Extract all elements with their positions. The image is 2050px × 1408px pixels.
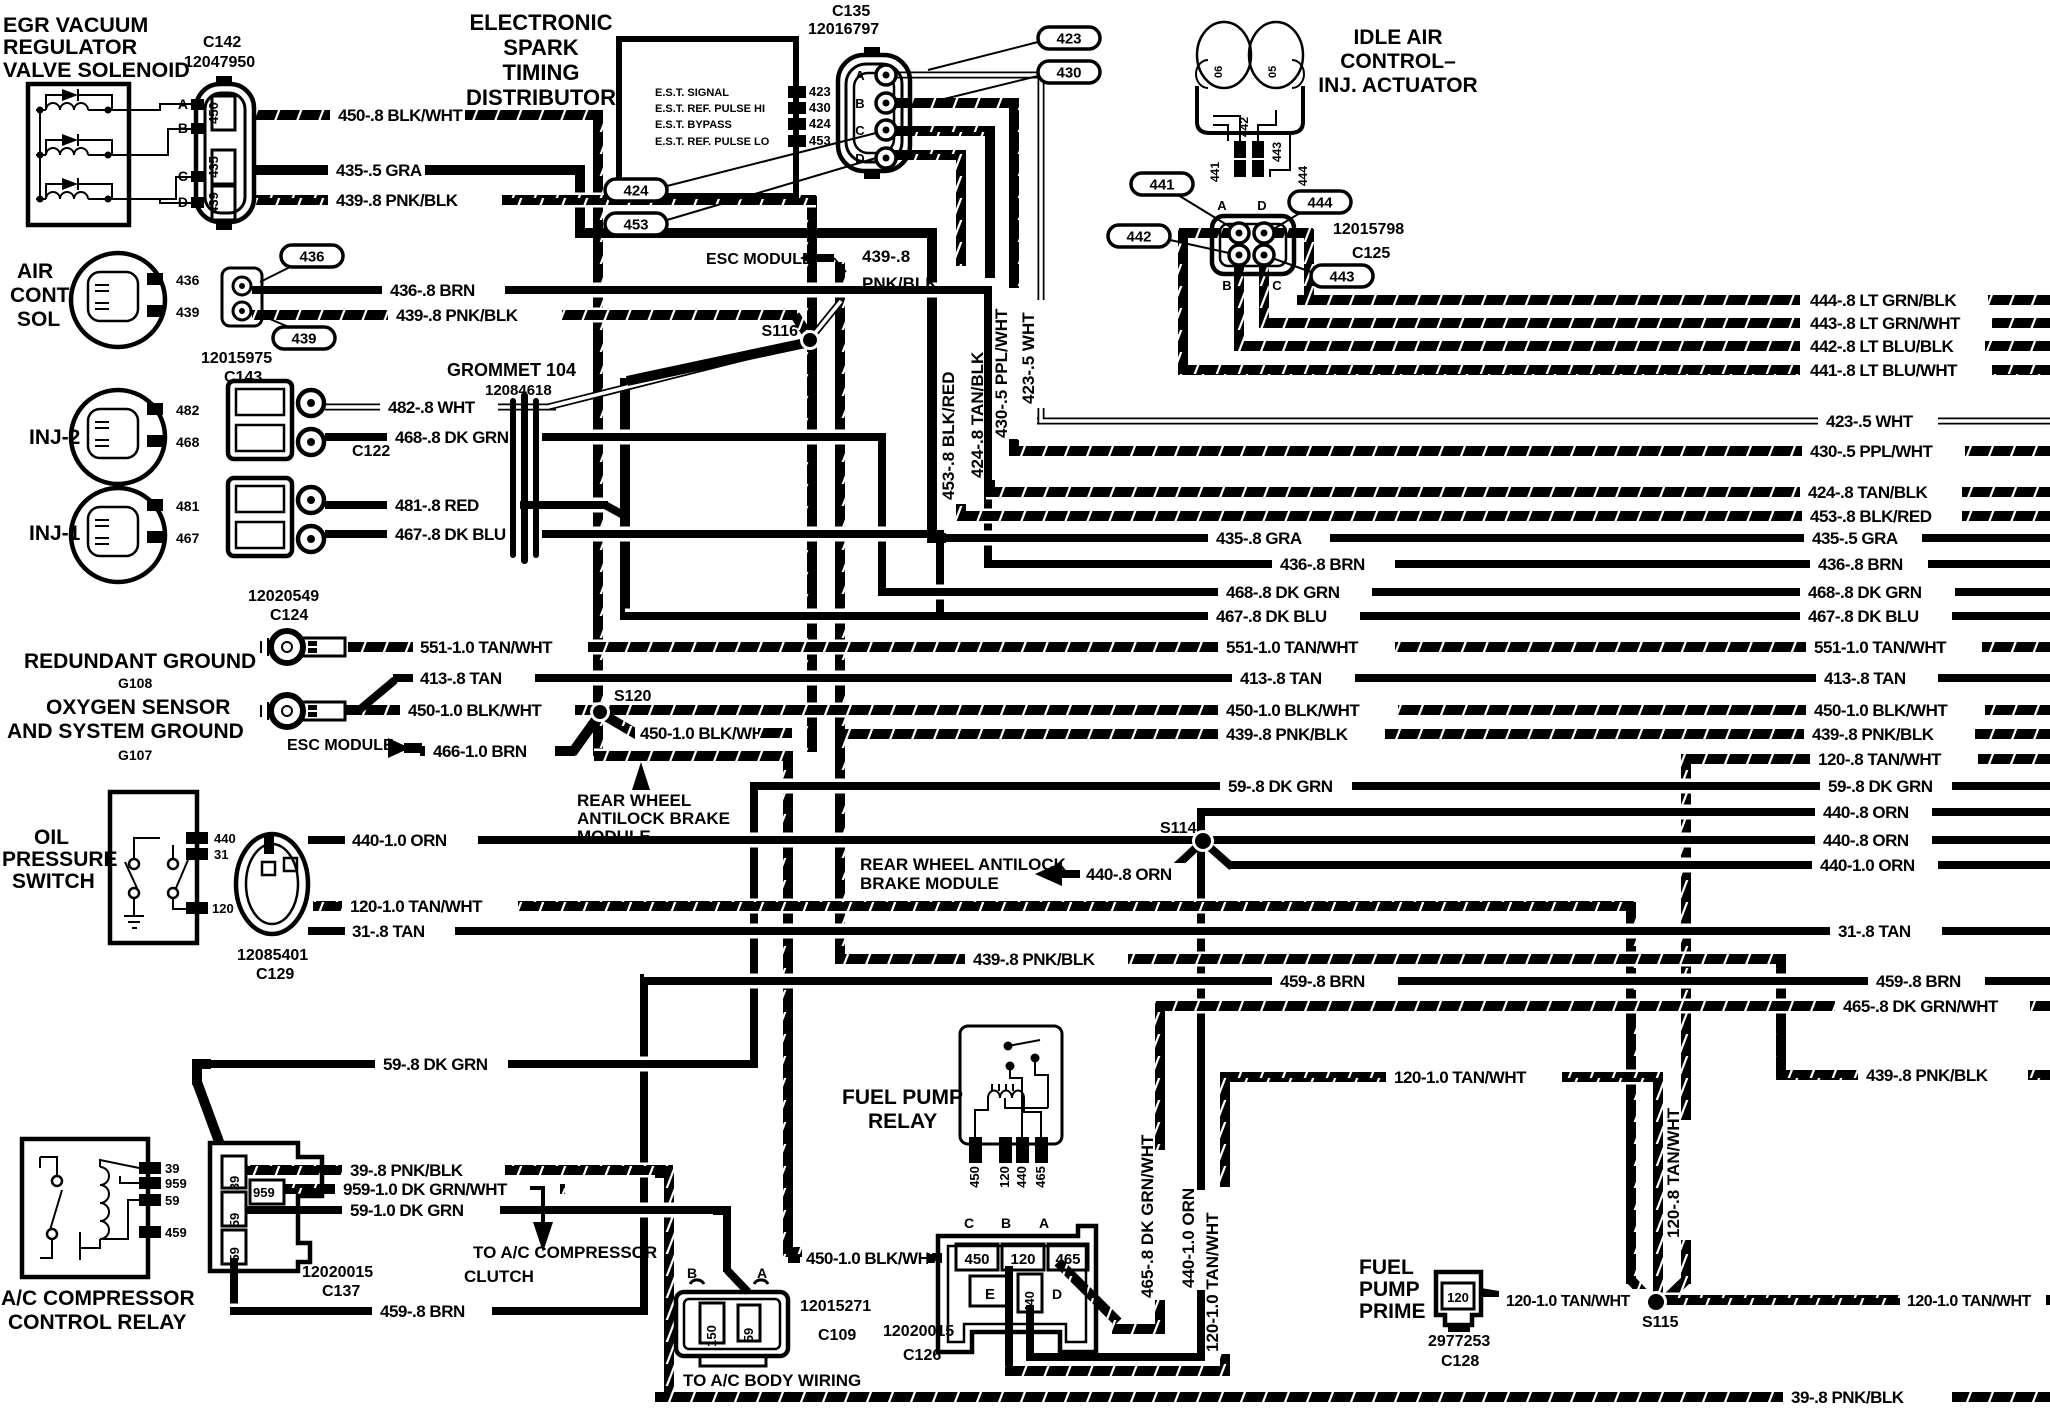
svg-text:443: 443 <box>1270 142 1284 162</box>
svg-text:E.S.T. SIGNAL: E.S.T. SIGNAL <box>655 87 729 99</box>
stadium 430 <box>1038 61 1100 83</box>
wire 450-1.0 BLK/WHT row <box>345 703 400 718</box>
svg-text:436: 436 <box>299 249 324 266</box>
connector C129 <box>236 834 308 934</box>
svg-text:C124: C124 <box>270 607 308 624</box>
corner 440 x=1201 <box>1187 1343 1201 1357</box>
svg-text:C122: C122 <box>352 443 390 460</box>
wire 59-.8 DK GRN row lower <box>197 1057 375 1072</box>
fuel pump prime connector <box>1436 1272 1481 1325</box>
wire 466-1.0 BRN to ESC module <box>420 744 425 759</box>
injector INJ-2 circle <box>71 390 165 484</box>
A/C relay coil symbol <box>100 1167 109 1239</box>
corner C125 wire feeds <box>1297 288 1309 300</box>
connector C142 pins <box>191 99 204 110</box>
wire 465 diagonal from C126 <box>1058 1262 1118 1322</box>
svg-text:A: A <box>1217 198 1227 213</box>
svg-text:FUEL PUMP: FUEL PUMP <box>842 1086 963 1109</box>
wire 466-1.0 BRN diagonal to S120 <box>572 714 600 753</box>
wire 39-.8 PNK/BLK row from C137 <box>246 1163 342 1178</box>
splice S116 <box>800 330 820 350</box>
svg-text:442: 442 <box>1237 117 1251 137</box>
wire 59 lower vertical x=197 <box>192 1060 202 1085</box>
svg-text:12015798: 12015798 <box>1333 221 1404 238</box>
svg-text:REGULATOR: REGULATOR <box>3 35 138 59</box>
svg-text:467-.8 DK BLU: 467-.8 DK BLU <box>1808 607 1919 626</box>
svg-text:450-.8 BLK/WHT: 450-.8 BLK/WHT <box>338 106 463 125</box>
svg-text:482: 482 <box>176 402 200 418</box>
svg-text:430: 430 <box>809 100 831 115</box>
svg-text:VALVE SOLENOID: VALVE SOLENOID <box>3 58 190 82</box>
svg-text:120-.8 TAN/WHT: 120-.8 TAN/WHT <box>1818 750 1942 769</box>
injector INJ-2 pins <box>147 403 163 415</box>
wire 439 diagonal into S116 <box>795 315 809 337</box>
svg-text:435-.5 GRA: 435-.5 GRA <box>1812 529 1898 548</box>
wire 424-.8 TAN/BLK row <box>986 485 1800 500</box>
svg-text:424-.8 TAN/BLK: 424-.8 TAN/BLK <box>1808 483 1928 502</box>
svg-text:120-1.0 TAN/WHT: 120-1.0 TAN/WHT <box>1907 1293 2032 1310</box>
svg-text:120-1.0 TAN/WHT: 120-1.0 TAN/WHT <box>1394 1068 1527 1087</box>
wire S115 funnel diagonals <box>1631 1280 1652 1302</box>
wire 120-1.0 TAN/WHT vertical x=1658 <box>1653 1073 1663 1300</box>
svg-text:439-.8 PNK/BLK: 439-.8 PNK/BLK <box>1226 725 1349 744</box>
svg-text:465: 465 <box>1055 1251 1080 1268</box>
svg-text:B: B <box>178 120 188 136</box>
svg-text:424: 424 <box>809 116 831 131</box>
svg-text:G107: G107 <box>118 747 152 763</box>
svg-text:C: C <box>1272 278 1282 293</box>
corner C135 wire feeds <box>1041 409 1053 421</box>
fuel pump relay coil <box>988 1091 1024 1098</box>
wire 959-1.0 DK GRN/WHT row <box>284 1182 335 1197</box>
wire 467-.8 DK BLU vertical x=940 <box>936 530 944 620</box>
wire 59-1.0 DK GRN row <box>246 1203 342 1218</box>
wire 468-.8 DK GRN vertical x=882 <box>878 433 886 596</box>
wires EGR box to C142 pins <box>124 104 191 110</box>
svg-text:FUEL: FUEL <box>1359 1256 1414 1279</box>
svg-text:IDLE AIR: IDLE AIR <box>1353 26 1442 49</box>
svg-text:959: 959 <box>165 1176 187 1191</box>
svg-text:459-.8 BRN: 459-.8 BRN <box>380 1302 465 1321</box>
wire S114 diagonal to 440-1.0 row <box>1206 844 1232 867</box>
svg-text:TIMING: TIMING <box>503 60 580 85</box>
svg-text:C: C <box>964 1215 974 1231</box>
corner 439 x=812 join row 734 <box>807 726 817 738</box>
svg-text:439-.8 PNK/BLK: 439-.8 PNK/BLK <box>1812 725 1935 744</box>
svg-text:120: 120 <box>1010 1251 1035 1268</box>
svg-text:12047950: 12047950 <box>184 54 255 71</box>
wire 120-.8 TAN/WHT vertical x=1686 <box>1681 755 1691 1120</box>
svg-text:959-1.0 DK GRN/WHT: 959-1.0 DK GRN/WHT <box>343 1180 508 1199</box>
wire 439-.8 PNK/BLK vertical x=1781 <box>1776 954 1786 1079</box>
wire 441 lead from pin A y=233 <box>1183 228 1243 238</box>
svg-text:481: 481 <box>176 498 200 514</box>
svg-text:REAR WHEEL ANTILOCK: REAR WHEEL ANTILOCK <box>860 855 1067 874</box>
wire 439-.8 PNK/BLK from C142 <box>252 193 328 208</box>
wire 59-.8 DK GRN row upper <box>754 779 1220 794</box>
connector C125 body <box>1212 216 1294 274</box>
connector C125 pins <box>1229 223 1249 243</box>
svg-text:436: 436 <box>176 272 200 288</box>
corner 465 x=1160 <box>1160 1006 1174 1020</box>
svg-text:444-.8 LT GRN/BLK: 444-.8 LT GRN/BLK <box>1810 291 1957 310</box>
svg-text:39-.8 PNK/BLK: 39-.8 PNK/BLK <box>350 1161 464 1180</box>
corner 468 wire <box>868 437 882 451</box>
stadium 443 <box>1311 265 1373 287</box>
wire 436-.8 BRN from C143 <box>252 283 382 298</box>
svg-text:C135: C135 <box>832 3 870 20</box>
svg-text:453-.8 BLK/RED: 453-.8 BLK/RED <box>1810 507 1932 526</box>
svg-text:440: 440 <box>1022 1291 1037 1313</box>
svg-text:C137: C137 <box>322 1283 360 1300</box>
wire 465 vertical x=1160 <box>1155 1002 1165 1150</box>
svg-text:468-.8 DK GRN: 468-.8 DK GRN <box>1226 583 1340 602</box>
wire 439-.8 PNK/BLK vertical x=812 from C142 <box>807 196 817 752</box>
svg-text:B: B <box>687 1265 697 1281</box>
svg-text:450: 450 <box>964 1251 989 1268</box>
svg-text:435-.5 GRA: 435-.5 GRA <box>336 161 422 180</box>
svg-text:A/C COMPRESSOR: A/C COMPRESSOR <box>1 1287 195 1310</box>
svg-text:423-.5 WHT: 423-.5 WHT <box>1019 312 1038 404</box>
svg-text:450-1.0 BLK/WHT: 450-1.0 BLK/WHT <box>1814 701 1948 720</box>
wire 440-1.0 ORN row from oil pressure switch / S114 <box>308 833 345 848</box>
wire C126 bottom horizontal y=1357 <box>1026 1353 1205 1361</box>
wire 439-.8 PNK/BLK stub row y=1075 <box>1777 1068 1858 1083</box>
corner 120-.8 x=1686 top <box>1686 759 1700 773</box>
idle air control motor pins <box>1234 141 1246 158</box>
distributor box <box>619 39 796 196</box>
svg-text:OXYGEN SENSOR: OXYGEN SENSOR <box>46 696 230 719</box>
idle air control motor symbol <box>1197 86 1303 133</box>
svg-text:REAR WHEEL: REAR WHEEL <box>577 791 691 810</box>
svg-text:31-.8 TAN: 31-.8 TAN <box>352 922 425 941</box>
wire 439-.8 PNK/BLK vertical x=840 from S116 <box>835 262 845 962</box>
svg-text:C125: C125 <box>1352 245 1390 262</box>
wire 120-1.0 TAN/WHT row y=1077 <box>1225 1070 1386 1085</box>
svg-text:441-.8 LT BLU/WHT: 441-.8 LT BLU/WHT <box>1810 361 1958 380</box>
A/C relay pins <box>139 1162 161 1174</box>
svg-text:440-.8 ORN: 440-.8 ORN <box>1823 831 1909 850</box>
wire 468-.8 DK GRN row <box>878 585 1218 600</box>
A/C relay switch symbol <box>52 1176 62 1186</box>
svg-text:SOL: SOL <box>17 308 60 331</box>
svg-text:39: 39 <box>227 1176 242 1190</box>
svg-text:S115: S115 <box>1642 1314 1679 1331</box>
svg-text:482-.8 WHT: 482-.8 WHT <box>388 398 476 417</box>
svg-text:EGR VACUUM: EGR VACUUM <box>3 13 148 37</box>
wire 59-1.0 DK GRN vertical x=727 <box>723 1207 731 1272</box>
svg-text:467-.8 DK BLU: 467-.8 DK BLU <box>395 525 506 544</box>
injector INJ-1 pins <box>147 499 163 511</box>
wire 120-.8 TAN/WHT row <box>1686 752 1810 767</box>
svg-text:S116: S116 <box>762 323 799 340</box>
EGR solenoid diode 1 <box>46 95 62 110</box>
EGR solenoid coil 1 <box>36 109 46 111</box>
corner 467 wire <box>926 534 940 548</box>
svg-text:SWITCH: SWITCH <box>12 870 95 893</box>
svg-text:440: 440 <box>214 831 236 846</box>
wire 435 route vertical x=932 <box>927 229 937 542</box>
svg-text:430-.5 PPL/WHT: 430-.5 PPL/WHT <box>992 308 1011 438</box>
svg-text:444: 444 <box>1307 195 1333 212</box>
svg-text:31: 31 <box>214 847 228 862</box>
wire 440 pin lead C126 x=1030 <box>1026 1305 1034 1361</box>
svg-text:465: 465 <box>1033 1166 1048 1188</box>
wire 439-.8 PNK/BLK from C143 <box>252 308 388 323</box>
wire 435-.5 GRA row <box>928 531 1208 546</box>
svg-text:443-.8 LT GRN/WHT: 443-.8 LT GRN/WHT <box>1810 314 1961 333</box>
wire 450-1.0 BLK/WHT into C126 <box>788 1251 800 1266</box>
wire 436-.8 BRN vertical x=988 <box>984 286 992 568</box>
svg-text:450-1.0 BLK/WHT: 450-1.0 BLK/WHT <box>640 724 774 743</box>
wire 467-.8 DK BLU from C124 <box>325 527 387 542</box>
svg-text:59: 59 <box>165 1193 179 1208</box>
arrow 440-.8 ORN to rear wheel module <box>1035 862 1062 886</box>
svg-text:413-.8 TAN: 413-.8 TAN <box>1240 669 1322 688</box>
wire 459-.8 BRN row <box>644 974 1272 989</box>
stadium 442 <box>1108 225 1170 247</box>
oil pressure switch pins <box>186 832 208 844</box>
wire S120 branch y=756 <box>594 749 792 764</box>
svg-text:BRAKE MODULE: BRAKE MODULE <box>860 874 999 893</box>
svg-text:39-.8 PNK/BLK: 39-.8 PNK/BLK <box>1791 1388 1905 1407</box>
svg-text:59-.8 DK GRN: 59-.8 DK GRN <box>383 1055 488 1074</box>
svg-text:466-1.0 BRN: 466-1.0 BRN <box>433 742 527 761</box>
svg-text:430: 430 <box>1056 65 1081 82</box>
svg-text:12020015: 12020015 <box>883 1323 954 1340</box>
svg-text:413-.8 TAN: 413-.8 TAN <box>1824 669 1906 688</box>
svg-text:436-.8 BRN: 436-.8 BRN <box>1818 555 1903 574</box>
svg-text:150: 150 <box>704 1325 719 1347</box>
wire 120-1.0 TAN/WHT row from oil pressure switch <box>313 899 342 914</box>
wire 435 route horizontal y=233 <box>576 228 936 238</box>
svg-text:442-.8 LT BLU/BLK: 442-.8 LT BLU/BLK <box>1810 337 1954 356</box>
connector C109 body <box>676 1292 788 1356</box>
svg-text:E: E <box>985 1286 995 1303</box>
corner 59 lower left <box>197 1064 211 1078</box>
svg-text:MODULE: MODULE <box>577 827 651 846</box>
svg-text:436-.8 BRN: 436-.8 BRN <box>390 281 475 300</box>
fuel pump relay contacts <box>1004 1042 1013 1051</box>
svg-text:A: A <box>757 1265 767 1281</box>
wire 120-1.0 TAN/WHT row S115 <box>1501 1289 1650 1311</box>
svg-text:C129: C129 <box>256 966 294 983</box>
svg-text:444: 444 <box>1296 166 1310 186</box>
svg-text:AND SYSTEM GROUND: AND SYSTEM GROUND <box>7 720 244 743</box>
svg-text:120-1.0 TAN/WHT: 120-1.0 TAN/WHT <box>350 897 483 916</box>
corner 59 upper row <box>754 786 768 800</box>
svg-text:459: 459 <box>227 1247 242 1269</box>
svg-text:59-.8 DK GRN: 59-.8 DK GRN <box>1228 777 1333 796</box>
EGR solenoid diode 2 <box>46 140 62 155</box>
wire 450-1.0 branch vertical x=788 <box>783 752 793 1256</box>
wire S114 diagonal to rear-wheel arrow <box>1162 844 1200 870</box>
svg-text:AIR: AIR <box>17 260 53 283</box>
svg-text:31-.8 TAN: 31-.8 TAN <box>1838 922 1911 941</box>
stadium 444 <box>1289 191 1351 213</box>
svg-text:CONTROL–: CONTROL– <box>1340 50 1456 73</box>
svg-text:450: 450 <box>206 102 221 124</box>
splice S115 <box>1645 1291 1667 1313</box>
svg-text:CONTROL RELAY: CONTROL RELAY <box>8 1311 187 1334</box>
connector C142 body <box>196 84 254 222</box>
svg-text:DISTRIBUTOR: DISTRIBUTOR <box>466 85 616 110</box>
oil pressure switch ground symbol <box>124 906 144 928</box>
svg-text:551-1.0 TAN/WHT: 551-1.0 TAN/WHT <box>420 638 553 657</box>
wire 481 diagonal <box>605 505 625 516</box>
wire 453-.8 BLK/RED row <box>957 509 1802 524</box>
svg-text:G108: G108 <box>118 675 152 691</box>
injector INJ-1 circle <box>71 488 165 582</box>
corner 120 x=1658 top <box>1644 1077 1658 1091</box>
wire 551-1.0 TAN/WHT row <box>348 640 413 655</box>
svg-text:12015271: 12015271 <box>800 1298 871 1315</box>
svg-text:OIL: OIL <box>34 826 69 849</box>
svg-text:A: A <box>855 68 865 83</box>
svg-text:440-1.0 ORN: 440-1.0 ORN <box>1179 1188 1198 1288</box>
fuel pump relay pins <box>969 1137 982 1163</box>
svg-text:442: 442 <box>1126 229 1151 246</box>
wire 441-.8 LT BLU/WHT row <box>1179 363 1800 378</box>
EGR internal bus <box>39 110 41 199</box>
EGR solenoid coil 3 <box>36 198 46 200</box>
svg-text:430-.5 PPL/WHT: 430-.5 PPL/WHT <box>1810 442 1934 461</box>
wire 459 lead from C137 <box>230 1258 238 1315</box>
svg-text:450-1.0 BLK/WHT: 450-1.0 BLK/WHT <box>806 1249 940 1268</box>
wire 450-.8 BLK/WHT from C142 <box>252 108 330 123</box>
wire S114 up branch to 440-.8 row <box>1201 812 1205 845</box>
svg-text:CLUTCH: CLUTCH <box>464 1267 534 1286</box>
wire 423-.5 WHT row <box>1037 414 1818 429</box>
svg-text:59-1.0 DK GRN: 59-1.0 DK GRN <box>350 1201 464 1220</box>
svg-text:435-.8 GRA: 435-.8 GRA <box>1216 529 1302 548</box>
svg-text:PRESSURE: PRESSURE <box>2 848 118 871</box>
wire 31-.8 TAN row <box>308 924 345 939</box>
svg-text:436-.8 BRN: 436-.8 BRN <box>1280 555 1365 574</box>
stadium 424 <box>605 179 667 201</box>
svg-text:A: A <box>178 96 188 112</box>
svg-text:PNK/BLK: PNK/BLK <box>862 274 938 293</box>
wire 444-.8 LT GRN/BLK row <box>1305 293 1800 308</box>
svg-text:59-.8 DK GRN: 59-.8 DK GRN <box>1828 777 1933 796</box>
wire 59 vertical x=754 <box>750 782 758 1068</box>
svg-text:120-1.0 TAN/WHT: 120-1.0 TAN/WHT <box>1506 1293 1631 1310</box>
corner 39 x=669 <box>655 1173 669 1187</box>
svg-text:441: 441 <box>1149 177 1174 194</box>
wire S116 diagonal up-right <box>811 301 841 338</box>
corner 439 x=1781 <box>1767 959 1781 973</box>
svg-text:C: C <box>178 168 188 184</box>
stadium 441 <box>1131 173 1193 195</box>
svg-text:39: 39 <box>165 1161 179 1176</box>
svg-text:SPARK: SPARK <box>503 35 578 60</box>
svg-text:453: 453 <box>623 217 648 234</box>
corner 120 x=1631 top <box>1617 906 1631 920</box>
svg-text:2977253: 2977253 <box>1428 1333 1490 1350</box>
ground G107 fork to 413 row <box>345 680 395 711</box>
connector C126 body <box>938 1226 1096 1352</box>
svg-text:459-.8 BRN: 459-.8 BRN <box>1280 972 1365 991</box>
wire 39-.8 PNK/BLK bottom rail <box>655 1390 1783 1405</box>
oil pressure switch box <box>110 792 197 943</box>
svg-text:459: 459 <box>165 1225 187 1240</box>
wire 481-.8 RED from C124 <box>325 498 387 513</box>
svg-text:959: 959 <box>253 1185 275 1200</box>
svg-text:459-.8 BRN: 459-.8 BRN <box>1876 972 1961 991</box>
svg-text:423: 423 <box>809 84 831 99</box>
wire 435-.5 GRA from C142 <box>252 163 328 178</box>
stadium 423 <box>1038 27 1100 49</box>
svg-text:E.S.T. REF. PULSE LO: E.S.T. REF. PULSE LO <box>655 136 770 148</box>
connector C122 body <box>228 381 292 459</box>
svg-text:467: 467 <box>176 530 200 546</box>
svg-text:120: 120 <box>997 1166 1012 1188</box>
svg-text:12020549: 12020549 <box>248 588 319 605</box>
wire 413-.8 TAN row <box>393 671 413 686</box>
wire 424-.8 TAN/BLK vertical x=990 <box>985 127 995 278</box>
connector C143 <box>222 268 262 326</box>
connector C135 pins <box>876 65 896 85</box>
wire 440-1.0 ORN row 3 <box>1230 858 1812 873</box>
svg-text:551-1.0 TAN/WHT: 551-1.0 TAN/WHT <box>1814 638 1947 657</box>
corner 459 x=644 <box>644 981 658 995</box>
grommet 104 symbol <box>510 398 516 558</box>
svg-text:06: 06 <box>1213 66 1225 78</box>
svg-text:D: D <box>178 194 188 210</box>
svg-text:120: 120 <box>212 901 234 916</box>
svg-text:440-.8 ORN: 440-.8 ORN <box>1823 803 1909 822</box>
wire 459-.8 BRN row from C137 <box>230 1304 372 1319</box>
svg-text:ESC MODULE: ESC MODULE <box>706 251 813 268</box>
svg-text:PUMP: PUMP <box>1359 1278 1420 1301</box>
wire 439-.8 PNK/BLK row y=959 <box>843 952 965 967</box>
connector C135 body <box>838 55 910 171</box>
svg-text:S114: S114 <box>1160 820 1197 837</box>
svg-text:12016797: 12016797 <box>808 21 879 38</box>
svg-text:551-1.0 TAN/WHT: 551-1.0 TAN/WHT <box>1226 638 1359 657</box>
wire 465-.8 DK GRN/WHT row <box>1160 999 1835 1014</box>
svg-text:ELECTRONIC: ELECTRONIC <box>470 10 613 35</box>
wire 430-.5 PPL/WHT vertical x=1014 <box>1009 99 1019 288</box>
svg-text:439-.8 PNK/BLK: 439-.8 PNK/BLK <box>973 950 1096 969</box>
svg-text:PRIME: PRIME <box>1359 1300 1426 1323</box>
corner 435 wire <box>566 170 580 184</box>
svg-text:440-1.0 ORN: 440-1.0 ORN <box>352 831 447 850</box>
wire 120-1.0 TAN/WHT vertical x=1225 <box>1220 1073 1230 1187</box>
wire 59 lower diagonal into C137 <box>197 1082 225 1158</box>
svg-text:E.S.T. BYPASS: E.S.T. BYPASS <box>655 119 732 131</box>
connector C109 pin boxes <box>700 1303 724 1343</box>
wire 453-.8 BLK/RED vertical x=961 <box>956 151 966 266</box>
svg-text:467-.8 DK BLU: 467-.8 DK BLU <box>1216 607 1327 626</box>
svg-text:453-.8 BLK/RED: 453-.8 BLK/RED <box>939 372 958 500</box>
fuel pump relay box <box>960 1026 1062 1144</box>
corner 436 wire <box>974 290 988 304</box>
svg-text:ANTILOCK BRAKE: ANTILOCK BRAKE <box>577 809 730 828</box>
connector C137 pin boxes <box>222 1156 246 1188</box>
connector C137 body <box>210 1143 322 1271</box>
svg-text:439: 439 <box>291 331 316 348</box>
ground ring terminal G108 <box>271 631 303 663</box>
wire 468-.8 DK GRN from C122 <box>325 430 387 445</box>
svg-text:423: 423 <box>1056 31 1081 48</box>
splice S114 <box>1192 830 1214 852</box>
svg-text:481-.8 RED: 481-.8 RED <box>395 496 479 515</box>
svg-text:439: 439 <box>206 192 221 214</box>
svg-text:440-.8 ORN: 440-.8 ORN <box>1086 865 1172 884</box>
svg-text:120-1.0 TAN/WHT: 120-1.0 TAN/WHT <box>1203 1212 1222 1352</box>
svg-text:E.S.T. REF. PULSE HI: E.S.T. REF. PULSE HI <box>655 103 765 115</box>
